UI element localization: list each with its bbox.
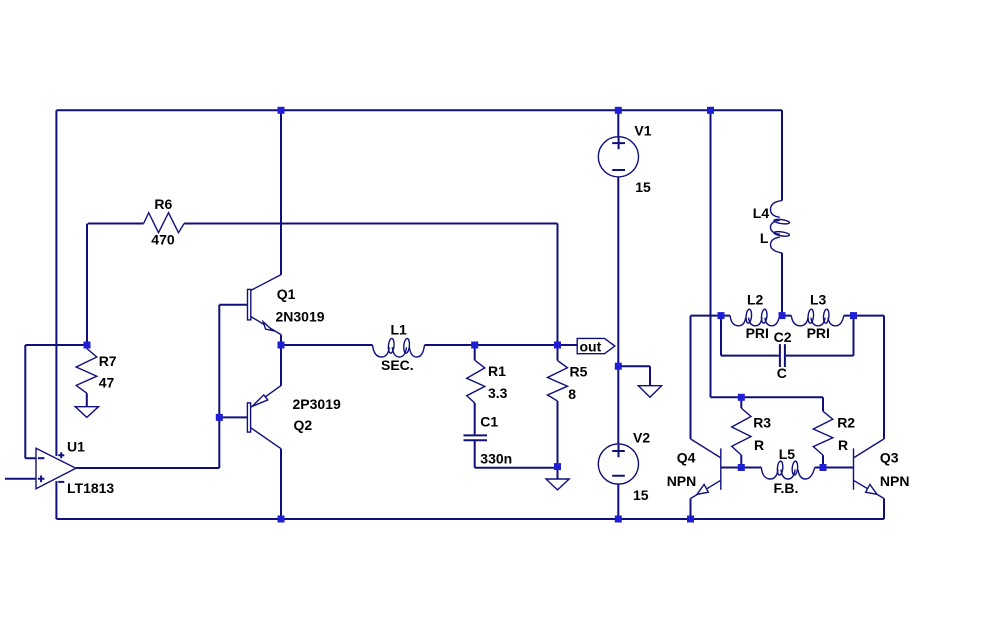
svg-text:2N3019: 2N3019 [276,309,325,325]
svg-text:V1: V1 [634,122,651,138]
svg-text:R7: R7 [99,353,117,369]
svg-text:470: 470 [151,232,175,248]
svg-text:330n: 330n [480,450,512,466]
svg-text:L4: L4 [753,205,770,221]
svg-text:C1: C1 [480,414,498,430]
svg-text:NPN: NPN [667,473,697,489]
svg-text:R1: R1 [488,363,506,379]
svg-text:8: 8 [568,386,576,402]
svg-text:2P3019: 2P3019 [293,396,341,412]
svg-text:out: out [580,338,602,354]
svg-text:SEC.: SEC. [381,357,414,373]
svg-text:L5: L5 [779,446,796,462]
svg-text:R2: R2 [837,415,855,431]
svg-text:R3: R3 [753,415,771,431]
svg-text:L: L [760,230,769,246]
svg-text:U1: U1 [67,438,85,454]
svg-text:R: R [838,437,848,453]
svg-text:3.3: 3.3 [488,385,508,401]
svg-text:C: C [777,365,787,381]
svg-text:R6: R6 [154,196,172,212]
svg-text:V2: V2 [633,429,650,445]
svg-text:LT1813: LT1813 [67,480,114,496]
svg-text:Q1: Q1 [277,286,296,302]
svg-text:F.B.: F.B. [774,480,799,496]
svg-text:PRI: PRI [746,325,769,341]
svg-text:C2: C2 [774,329,792,345]
svg-text:L2: L2 [747,292,764,308]
svg-text:PRI: PRI [807,325,830,341]
svg-text:15: 15 [633,487,649,503]
svg-text:15: 15 [635,179,651,195]
svg-text:NPN: NPN [880,473,910,489]
svg-text:Q2: Q2 [294,417,313,433]
svg-text:47: 47 [99,375,115,391]
svg-text:R: R [754,437,764,453]
svg-text:R5: R5 [570,363,588,379]
svg-text:Q3: Q3 [880,450,899,466]
svg-text:Q4: Q4 [677,450,696,466]
svg-text:L3: L3 [810,292,827,308]
svg-text:L1: L1 [391,322,408,338]
